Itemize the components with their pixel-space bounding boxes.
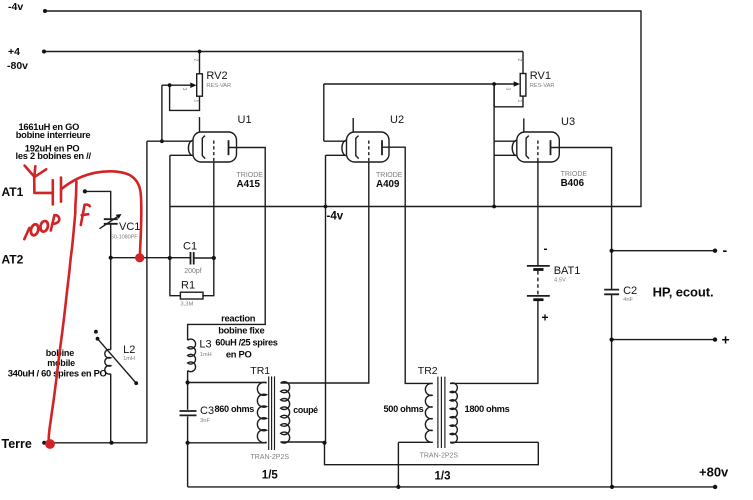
- svg-text:TRIODE: TRIODE: [561, 171, 588, 178]
- svg-text:-80v: -80v: [7, 60, 28, 72]
- svg-text:1mH: 1mH: [123, 356, 135, 362]
- svg-text:1/3: 1/3: [435, 471, 451, 483]
- svg-text:TRAN-2P2S: TRAN-2P2S: [251, 454, 290, 461]
- svg-text:+: +: [542, 311, 549, 325]
- svg-text:A409: A409: [376, 179, 400, 190]
- svg-text:2: 2: [193, 59, 199, 62]
- svg-text:BAT1: BAT1: [554, 265, 581, 277]
- svg-text:RES-VAR: RES-VAR: [206, 83, 231, 89]
- svg-text:1800 ohms: 1800 ohms: [465, 404, 510, 414]
- svg-text:AT1: AT1: [2, 185, 24, 199]
- svg-text:4.5V: 4.5V: [554, 277, 566, 283]
- svg-text:50-1080PF: 50-1080PF: [111, 235, 138, 241]
- svg-text:3,3M: 3,3M: [180, 302, 193, 308]
- svg-text:RV2: RV2: [206, 70, 227, 82]
- svg-text:3nF: 3nF: [200, 418, 210, 424]
- svg-text:RV1: RV1: [530, 70, 551, 82]
- svg-text:-: -: [723, 242, 728, 258]
- svg-text:-4v: -4v: [327, 211, 344, 223]
- svg-text:+: +: [722, 332, 730, 348]
- svg-text:TR1: TR1: [250, 365, 270, 377]
- svg-text:HP, ecout.: HP, ecout.: [653, 285, 714, 300]
- svg-text:TRIODE: TRIODE: [237, 172, 264, 179]
- svg-text:bobine fixe: bobine fixe: [218, 325, 264, 336]
- svg-text:C3: C3: [200, 405, 214, 417]
- svg-text:-4v: -4v: [8, 1, 23, 13]
- svg-text:TR2: TR2: [418, 365, 438, 377]
- svg-text:-: -: [544, 242, 548, 256]
- svg-text:3: 3: [181, 88, 187, 91]
- svg-text:4nF: 4nF: [623, 297, 633, 303]
- svg-text:RES-VAR: RES-VAR: [530, 83, 555, 89]
- svg-text:en PO: en PO: [226, 348, 252, 359]
- svg-text:TRIODE: TRIODE: [376, 172, 403, 179]
- svg-text:1/5: 1/5: [262, 470, 279, 482]
- svg-text:Terre: Terre: [2, 437, 32, 451]
- svg-text:A415: A415: [237, 179, 261, 190]
- svg-text:U2: U2: [390, 114, 404, 126]
- svg-text:C1: C1: [183, 241, 197, 253]
- svg-text:L2: L2: [123, 344, 135, 356]
- svg-text:1: 1: [516, 100, 522, 103]
- svg-text:reaction: reaction: [221, 313, 256, 324]
- svg-text:les 2 bobines en //: les 2 bobines en //: [16, 151, 92, 161]
- svg-text:860 ohms: 860 ohms: [215, 404, 255, 414]
- svg-text:C2: C2: [623, 285, 637, 297]
- svg-text:1: 1: [193, 100, 199, 103]
- svg-text:R1: R1: [181, 280, 195, 292]
- svg-text:U1: U1: [238, 114, 252, 126]
- svg-text:500 ohms: 500 ohms: [384, 404, 424, 414]
- svg-text:AT2: AT2: [2, 253, 24, 267]
- svg-text:+4: +4: [8, 46, 20, 58]
- svg-text:+80v: +80v: [699, 465, 729, 480]
- svg-text:60uH /25 spires: 60uH /25 spires: [215, 338, 277, 348]
- svg-text:B406: B406: [561, 178, 585, 189]
- svg-text:3: 3: [505, 88, 511, 91]
- svg-text:VC1: VC1: [119, 221, 140, 233]
- svg-text:mobile: mobile: [47, 358, 75, 368]
- svg-text:TRAN-2P2S: TRAN-2P2S: [420, 453, 459, 460]
- svg-text:U3: U3: [561, 116, 575, 128]
- svg-text:bobine interrieure: bobine interrieure: [16, 130, 91, 140]
- svg-text:coupé: coupé: [293, 405, 318, 415]
- svg-text:1mH: 1mH: [200, 352, 212, 358]
- svg-text:L3: L3: [199, 339, 211, 351]
- svg-text:200pf: 200pf: [184, 268, 202, 275]
- svg-text:2: 2: [516, 59, 522, 62]
